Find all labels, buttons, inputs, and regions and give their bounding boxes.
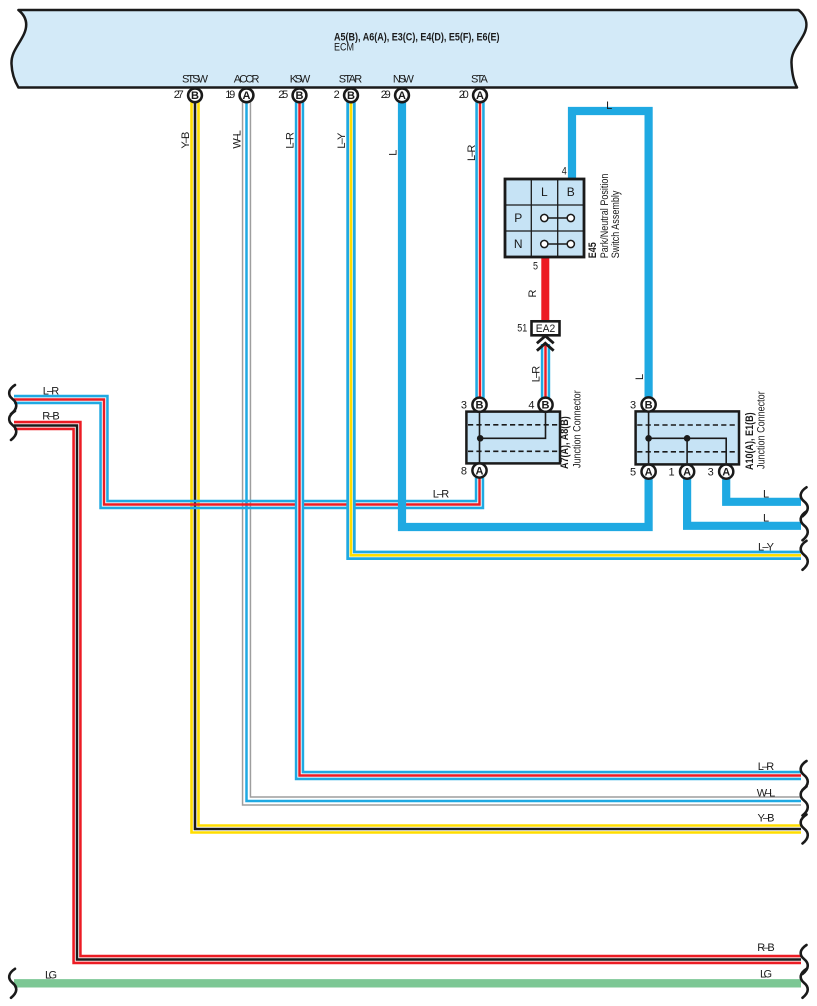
svg-text:R: R xyxy=(527,290,539,298)
svg-text:3: 3 xyxy=(630,399,636,411)
svg-text:W–L: W–L xyxy=(232,130,244,149)
svg-text:B: B xyxy=(347,90,355,102)
svg-text:ECM: ECM xyxy=(334,42,354,54)
svg-text:25: 25 xyxy=(278,89,288,101)
svg-text:B: B xyxy=(191,90,199,102)
svg-text:4: 4 xyxy=(528,400,534,412)
svg-text:NSW: NSW xyxy=(393,73,415,85)
svg-text:B: B xyxy=(296,90,304,102)
svg-text:ACCR: ACCR xyxy=(234,73,260,85)
svg-text:Y–B: Y–B xyxy=(758,813,775,825)
svg-text:2: 2 xyxy=(334,89,340,101)
svg-text:STSW: STSW xyxy=(182,73,209,85)
svg-text:P: P xyxy=(514,211,522,225)
svg-text:R–B: R–B xyxy=(757,942,775,954)
svg-text:STA: STA xyxy=(471,73,489,85)
svg-text:KSW: KSW xyxy=(290,73,311,85)
svg-text:B: B xyxy=(542,400,550,412)
svg-text:29: 29 xyxy=(381,89,391,101)
svg-text:A: A xyxy=(398,90,406,102)
svg-text:B: B xyxy=(567,185,575,199)
svg-text:20: 20 xyxy=(459,89,469,101)
svg-text:27: 27 xyxy=(174,89,184,101)
svg-text:E45: E45 xyxy=(587,242,599,258)
svg-text:L: L xyxy=(388,150,400,156)
svg-text:LG: LG xyxy=(45,969,57,981)
svg-text:5: 5 xyxy=(630,466,636,478)
svg-text:STAR: STAR xyxy=(339,73,362,85)
svg-text:5: 5 xyxy=(533,261,538,273)
svg-text:B: B xyxy=(476,400,484,412)
svg-text:Junction Connector: Junction Connector xyxy=(572,390,584,468)
svg-text:L–R: L–R xyxy=(466,144,478,161)
svg-text:W–L: W–L xyxy=(757,788,776,800)
svg-text:A7(A), A8(B): A7(A), A8(B) xyxy=(559,416,571,469)
svg-text:B: B xyxy=(645,399,653,411)
svg-text:19: 19 xyxy=(225,89,235,101)
svg-text:L–R: L–R xyxy=(285,132,297,149)
svg-text:L: L xyxy=(634,374,646,380)
svg-text:N: N xyxy=(514,237,523,251)
svg-text:LG: LG xyxy=(760,968,772,980)
svg-text:L: L xyxy=(541,185,548,199)
svg-text:L–R: L–R xyxy=(43,386,60,398)
svg-text:A: A xyxy=(243,90,251,102)
svg-text:A10(A), E1(B): A10(A), E1(B) xyxy=(744,412,756,470)
svg-text:A: A xyxy=(476,90,484,102)
svg-text:3: 3 xyxy=(708,466,714,478)
svg-text:3: 3 xyxy=(461,400,467,412)
svg-text:EA2: EA2 xyxy=(536,323,556,335)
svg-text:8: 8 xyxy=(461,465,467,477)
svg-text:A: A xyxy=(683,466,691,478)
svg-text:Switch Assembly: Switch Assembly xyxy=(610,190,622,258)
svg-text:A: A xyxy=(476,465,484,477)
svg-text:A5(B), A6(A), E3(C), E4(D), E5: A5(B), A6(A), E3(C), E4(D), E5(F), E6(E) xyxy=(334,32,500,44)
svg-text:Y–B: Y–B xyxy=(180,132,192,149)
svg-text:51: 51 xyxy=(517,323,527,335)
svg-text:L: L xyxy=(763,488,769,500)
svg-text:R–B: R–B xyxy=(42,411,60,423)
svg-text:L–Y: L–Y xyxy=(336,132,348,149)
svg-text:L–R: L–R xyxy=(531,366,543,383)
svg-text:A: A xyxy=(645,466,653,478)
svg-text:L–R: L–R xyxy=(758,761,775,773)
svg-text:L–R: L–R xyxy=(433,489,450,501)
svg-text:L: L xyxy=(763,512,769,524)
svg-text:L–Y: L–Y xyxy=(758,542,775,554)
svg-text:L: L xyxy=(606,100,612,112)
svg-text:A: A xyxy=(722,466,730,478)
svg-text:4: 4 xyxy=(562,166,567,178)
svg-text:Junction Connector: Junction Connector xyxy=(756,391,768,469)
svg-text:1: 1 xyxy=(668,466,674,478)
